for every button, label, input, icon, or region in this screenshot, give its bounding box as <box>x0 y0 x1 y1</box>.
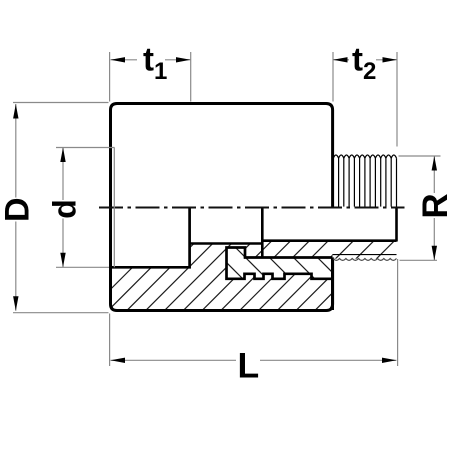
section hatching: fitting body <box>70 80 450 330</box>
socket depth line <box>113 148 115 268</box>
counterbore step surface <box>190 242 264 245</box>
male thread crest line <box>333 155 396 158</box>
dimension t2 <box>333 41 397 147</box>
centerline <box>99 206 405 208</box>
insert end-face boundary <box>261 208 264 258</box>
dimension R <box>399 156 450 260</box>
socket bore d <box>111 208 190 268</box>
thread root sawtooth (section) <box>333 259 396 261</box>
svg-text:R: R <box>416 193 450 218</box>
dimension t1 <box>110 41 191 102</box>
dimension L <box>110 259 398 386</box>
fitting body outline <box>111 104 333 311</box>
svg-text:D: D <box>0 197 37 222</box>
male thread flank lines <box>333 158 396 206</box>
svg-text:L: L <box>238 346 260 386</box>
stub end face <box>395 208 398 242</box>
dimension d <box>47 148 115 268</box>
dimension D <box>0 103 109 313</box>
insert outer surface line <box>244 256 333 259</box>
section hatching: threaded stub wall <box>314 210 446 280</box>
body right edge below stub <box>331 258 334 311</box>
thread root line <box>333 254 397 256</box>
section hatching: knurled insert <box>190 130 350 386</box>
knurled insert serrated profile <box>227 248 333 279</box>
svg-text:d: d <box>47 199 83 219</box>
insert bore surface <box>261 239 397 242</box>
